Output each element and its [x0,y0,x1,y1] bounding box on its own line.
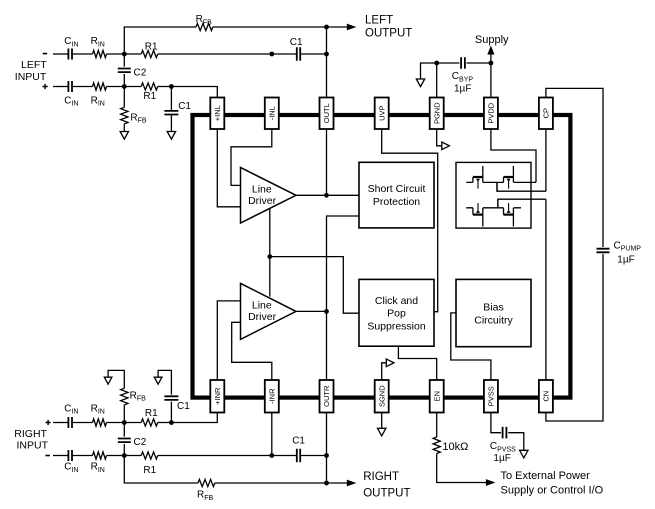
svg-text:10kΩ: 10kΩ [442,441,468,453]
wire right minus input [53,455,68,457]
pin EN [430,380,444,413]
node junction dot (right - / C2 / RFB) [122,453,127,458]
wire SGND flag [382,363,387,380]
svg-text:R1: R1 [143,91,156,102]
wire +INR to driver [217,301,240,380]
wire [72,455,93,457]
resistor RIN (left +) [93,83,107,90]
transistor Q3 (bottom-left switch) [472,208,474,215]
ground flag (SGND) [386,359,394,367]
svg-text:C2: C2 [134,67,147,78]
wire CP to CPUMP [546,88,603,247]
arrow RIGHT OUTPUT [347,480,357,487]
svg-text:C2: C2 [134,437,147,448]
node junction dot (C1/OUTL) [324,52,329,57]
block Short Circuit Protection [359,162,434,228]
wire [107,455,142,457]
wire left minus input [53,53,68,55]
ground flag down (right C1) [154,377,162,384]
svg-text:-INR: -INR [268,388,277,404]
resistor RFB (right to gnd) [123,405,125,423]
block Click and Pop Suppression [359,279,434,346]
arrow to external [486,479,496,486]
svg-text:RIGHT: RIGHT [363,471,399,483]
wire [508,433,524,451]
capacitor CPVSS [503,427,507,439]
wire [301,53,327,55]
node junction dot (left - / C2 / RFB) [122,52,127,57]
capacitor CIN (right -) [68,450,72,461]
capacitor CPUMP [597,249,610,253]
wire driver1 output to SCP [296,194,359,196]
svg-text:1µF: 1µF [493,453,510,464]
pin SGND [375,380,389,413]
svg-text:Supply: Supply [475,34,509,46]
resistor RIN (right -) [93,452,107,459]
resistor R1 (left +) [141,83,158,90]
wire CN to charge pump [498,199,546,380]
wire charge pump bottom rail [466,207,521,209]
ground (left C1) [167,132,175,140]
svg-text:Suppression: Suppression [367,320,426,332]
pin CP [539,98,553,130]
wire [158,53,297,55]
node dot driver2 output/OUTR [324,309,329,314]
wire PVSS decoupling [491,413,501,433]
IC body (thick border) [193,115,571,398]
wire bypass rail [437,62,491,64]
resistor RFB (left to gnd) [123,87,125,108]
node junction dot (left output) [324,25,329,30]
svg-text:INPUT: INPUT [17,440,49,452]
svg-text:C1: C1 [178,101,191,112]
svg-text:+INL: +INL [213,105,222,121]
wire OUTR column [326,413,328,484]
wire -INR drop [271,413,273,456]
wire [215,482,327,484]
wire UVP to Click-Pop [382,129,438,312]
wire CN tap [497,199,499,208]
node dot feedback junction [267,254,272,259]
wire RFB feedback riser [124,27,196,54]
svg-text:Pop: Pop [387,308,406,320]
capacitor C1 (right series) [297,449,300,462]
wire [72,53,93,55]
wire SGND ground [381,413,383,429]
node dot PGND rail [434,61,439,66]
svg-text:Line: Line [252,184,272,196]
node dot supply [489,61,494,66]
resistor R1 (left -) [141,50,158,57]
wire [107,422,142,424]
wire EN pulldown [436,413,438,438]
capacitor C1 (left to gnd) [170,87,172,132]
node junction dot (C1/OUTR) [324,453,329,458]
wire PVDD to supply [490,53,492,98]
op-amp U1a Line Driver (left) [241,168,297,224]
wire PVSS to Bias [451,313,491,380]
node junction dot (right C1 gnd tap) [169,420,174,425]
svg-text:1µF: 1µF [617,254,634,265]
resistor RIN (right +) [93,419,107,426]
node junction dot (-INL tap) [269,52,274,57]
capacitor CIN (left -) [68,49,72,60]
wire [158,87,218,98]
capacitor CIN (left +) [68,81,72,92]
ground flag down (right RFB) [104,377,112,384]
svg-text:PGND: PGND [432,102,441,124]
node junction dot (left + / C2 / RFB gnd) [122,84,127,89]
wire PGND ground flag [437,129,442,146]
wire [72,86,93,88]
node junction dot (right + / C2 / RFB gnd) [122,420,127,425]
wire CP tap [496,182,498,191]
capacitor C2 (right) [123,423,125,456]
block charge pump box [456,162,531,228]
svg-text:EN: EN [432,391,441,401]
svg-text:Circuitry: Circuitry [474,314,513,326]
ground (left RFB) [120,132,128,140]
svg-text:RIGHT: RIGHT [14,428,47,440]
ground (CPVSS) [520,450,528,458]
node junction dot (right output) [324,481,329,486]
pin +INR [210,380,224,413]
svg-text:Supply or Control I/O: Supply or Control I/O [501,484,604,496]
wire charge pump top rail [466,181,536,183]
pin PVDD [484,98,498,130]
svg-text:LEFT: LEFT [21,59,47,71]
ground flag (PGND) [442,142,450,150]
arrow Supply [487,46,494,55]
wire [72,422,93,424]
svg-text:OUTPUT: OUTPUT [365,27,412,39]
capacitor CBYP [461,57,465,69]
svg-text:Protection: Protection [373,196,420,208]
wire Click-Pop to EN [398,346,436,380]
wire +INL to driver [217,129,240,207]
pin +INL [210,98,224,130]
svg-text:Bias: Bias [483,302,503,314]
pin -INL [265,98,279,130]
wire -INL to driver [231,129,272,185]
svg-text:R1: R1 [145,408,158,419]
wire CN to CPUMP [546,254,603,421]
op-amp U1b Line Driver (right) [241,283,297,339]
svg-text:C1: C1 [292,435,305,446]
wire driver2 output [296,310,327,312]
svg-text:OUTPUT: OUTPUT [363,487,410,499]
svg-text:CP: CP [542,108,551,118]
capacitor C1 (right to gnd) [158,370,171,422]
wire [107,86,142,88]
svg-text:-INL: -INL [268,106,277,120]
svg-text:Driver: Driver [248,195,277,207]
svg-text:UVP: UVP [377,105,386,120]
capacitor CIN (right +) [68,417,72,428]
wire [158,413,218,423]
ground (SGND) [378,428,386,436]
pin PGND [430,98,444,130]
transistor Q4 (bottom-right switch) [503,208,505,215]
resistor RIN (left -) [93,50,107,57]
svg-text:INPUT: INPUT [15,71,47,83]
pin -INR [265,380,279,413]
wire OUTL to output node [326,129,328,195]
node junction dot (C1 gnd tap) [169,84,174,89]
wire PGND to bypass rail [421,63,437,98]
node junction dot (-INR tap) [269,453,274,458]
pin OUTR [320,380,334,413]
pin PVSS [484,380,498,413]
node dot driver1 output/OUTL [324,193,329,198]
resistor R1 (right +) [141,419,158,426]
pin UVP [375,98,389,130]
wire to left output arrow [327,26,349,28]
svg-text:R1: R1 [145,41,158,52]
wire RFB feedback (right) [124,456,198,484]
svg-text:C1: C1 [177,401,190,412]
ground (PGND rail) [416,79,424,87]
svg-text:CN: CN [542,391,551,402]
svg-text:Click and: Click and [375,295,418,307]
wire feedback node column [269,208,271,296]
capacitor C1 (left series) [297,47,300,61]
transistor Q2 (top-right switch) [503,177,505,182]
capacitor C2 (left) [123,54,125,87]
wire [213,26,327,28]
svg-text:R1: R1 [143,465,156,476]
wire -INR to driver [232,322,272,380]
svg-text:LEFT: LEFT [365,15,393,27]
wire CP to charge pump [497,129,546,191]
svg-text:SGND: SGND [377,385,386,407]
svg-text:OUTR: OUTR [322,385,331,407]
svg-text:+INR: +INR [213,387,222,405]
wire left plus input [53,86,68,88]
transistor Q1 (top-left switch) [472,177,474,182]
arrow LEFT OUTPUT [347,24,357,31]
wire to right output arrow [327,482,349,484]
svg-text:Short Circuit: Short Circuit [368,183,426,195]
svg-text:C1: C1 [290,37,303,48]
resistor R 10k [433,437,440,454]
wire EN to external [437,454,487,483]
svg-text:To External Power: To External Power [501,470,591,482]
svg-text:1µF: 1µF [454,83,471,94]
wire SCP to OUTR column [327,216,360,380]
wire feedback to Click-Pop [270,257,359,314]
pin CN [539,380,553,413]
wire [301,455,327,457]
svg-text:Line: Line [252,300,272,312]
resistor RFB (left feedback) [196,23,213,30]
block Bias Circuitry [456,279,531,346]
svg-text:PVSS: PVSS [487,386,496,406]
resistor RFB (right feedback) [198,479,215,486]
wire PVDD to charge pump [491,129,536,182]
resistor R1 (right -) [141,452,158,459]
wire [158,455,297,457]
wire OUTL column [326,27,328,98]
svg-text:PVDD: PVDD [487,102,496,123]
pin OUTL [320,98,334,130]
svg-text:Driver: Driver [248,311,277,323]
wire right plus input [53,422,68,424]
wire [107,53,142,55]
svg-text:OUTL: OUTL [322,103,331,123]
